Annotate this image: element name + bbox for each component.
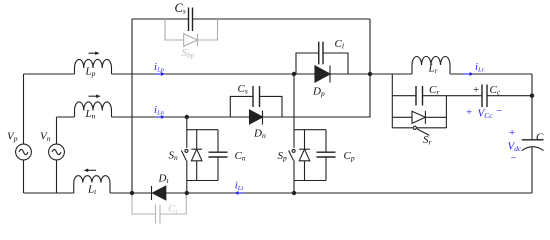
switch Sbp gray loop [165, 19, 218, 46]
wire main line y=74 [24, 73, 75, 75]
svg-text:iLr: iLr [475, 61, 485, 74]
resonant block: wire main down at x=392.3 [391, 74, 393, 128]
inductor Lt [74, 176, 110, 193]
junction node main-Cl [292, 72, 296, 76]
svg-text:Ln: Ln [85, 108, 96, 121]
svg-text:VCc: VCc [478, 108, 494, 121]
capacitor C output [522, 140, 544, 193]
junction node main-toprail [368, 72, 372, 76]
wire long vertical x=131.5 [131, 19, 133, 193]
wire Sr block right vertical [445, 96, 447, 128]
arrow over Lt (left) [84, 169, 96, 173]
svg-text:Cc: Cc [490, 84, 501, 97]
source Vn [49, 144, 65, 160]
svg-text:Cp: Cp [344, 150, 355, 163]
junction node rail-x132 [130, 191, 134, 195]
svg-text:−: − [496, 105, 502, 117]
diode of Sn cell [191, 130, 202, 181]
top rail with capacitor Cs [132, 8, 370, 32]
svg-text:Lp: Lp [85, 66, 96, 79]
wire Dn to node, up to main [263, 74, 371, 117]
cell top [187, 129, 218, 131]
blue current arrow iLt (left) [234, 191, 244, 195]
inductor Lp [75, 59, 112, 74]
diode Dt [152, 186, 166, 200]
svg-text:Ct: Ct [168, 203, 178, 216]
svg-text:+: + [509, 127, 515, 139]
cell top [294, 129, 326, 131]
svg-text:Sbp: Sbp [182, 47, 195, 60]
svg-text:Lr: Lr [428, 63, 438, 76]
diode of Sr (outline) [392, 111, 446, 124]
wire Vn bottom [56, 160, 58, 193]
wire main to Sp cell (vertical x=294) [293, 74, 295, 130]
wire Lr to right column [450, 73, 532, 75]
junction node rail-Sn [185, 191, 189, 195]
switch cell Sp [289, 130, 336, 193]
wire Vp bottom [23, 160, 25, 193]
diode of Sp cell [299, 130, 310, 181]
capacitor Cr line y=95.7 [392, 86, 473, 106]
svg-text:−: − [511, 153, 517, 165]
arrow over Lp [89, 51, 100, 55]
diode Dp [315, 66, 330, 83]
svg-text:Sp: Sp [278, 150, 288, 163]
svg-text:Cs: Cs [175, 1, 186, 16]
cell bottom [294, 180, 326, 182]
svg-text:iLn: iLn [154, 104, 164, 117]
cell bottom [187, 180, 218, 182]
switch Sp contact [292, 149, 295, 152]
wire Ln line y=117 [57, 116, 75, 118]
svg-text:Vp: Vp [7, 130, 18, 143]
capacitor Cp [317, 130, 336, 181]
svg-text:iLp: iLp [154, 61, 165, 74]
switch Sr [392, 126, 446, 135]
svg-text:Sr: Sr [423, 134, 432, 147]
svg-text:Cs: Cs [238, 83, 248, 96]
junction node Cc-output [530, 94, 534, 98]
svg-text:Dp: Dp [312, 86, 325, 99]
junction node rail-Sp [292, 191, 296, 195]
svg-text:Cn: Cn [235, 150, 246, 163]
svg-text:Cl: Cl [335, 38, 344, 51]
wire right column x=532 [531, 74, 533, 140]
blue current arrow iLn [156, 115, 166, 119]
wire Vn top [56, 117, 58, 144]
svg-text:Vn: Vn [40, 130, 51, 143]
wire below switch [186, 160, 188, 193]
svg-text:Lt: Lt [87, 184, 97, 197]
arrow over Ln [89, 94, 101, 98]
svg-text:iLt: iLt [235, 179, 244, 192]
wire rail Lt to Dt [110, 192, 153, 194]
switch Sn contact [185, 149, 188, 152]
svg-text:Vdc: Vdc [508, 141, 522, 154]
svg-text:+: + [473, 84, 479, 96]
svg-text:Sn: Sn [169, 150, 179, 163]
inductor Ln [75, 102, 112, 117]
wire below switch [293, 160, 295, 193]
svg-text:C: C [536, 132, 544, 144]
wire Ln to Dn [112, 116, 250, 118]
wire rail Dt to right [166, 192, 532, 194]
blue current arrow iLp [156, 72, 166, 76]
diode Dn [250, 110, 263, 125]
wire top rail right down to main node [369, 19, 371, 74]
junction node Dn-Sn [185, 115, 189, 119]
blue current arrow iLr [464, 72, 475, 76]
capacitor Cc [473, 85, 532, 108]
wire Dp to Lr [330, 73, 412, 75]
wire Dn node down to Sn cell [186, 117, 188, 148]
capacitor Cs snubber loop over Dn [230, 86, 282, 117]
bottom rail [24, 192, 74, 194]
switch Sn blade [181, 150, 186, 160]
svg-text:+: + [466, 107, 472, 119]
capacitor Cn [209, 130, 228, 181]
switch cell Sn [181, 117, 227, 193]
svg-text:Dt: Dt [158, 173, 170, 186]
svg-text:Cr: Cr [429, 84, 439, 97]
inductor Lr [412, 57, 450, 75]
capacitor Ct gray snubber loop under Dt [132, 193, 186, 224]
switch Sp blade [289, 150, 294, 160]
wire main line Lp to Dp [112, 73, 316, 75]
wire Vp top [23, 74, 25, 144]
svg-text:Dn: Dn [253, 128, 266, 141]
capacitor Cl loop over Dp [296, 42, 348, 74]
source Vp [16, 144, 32, 160]
